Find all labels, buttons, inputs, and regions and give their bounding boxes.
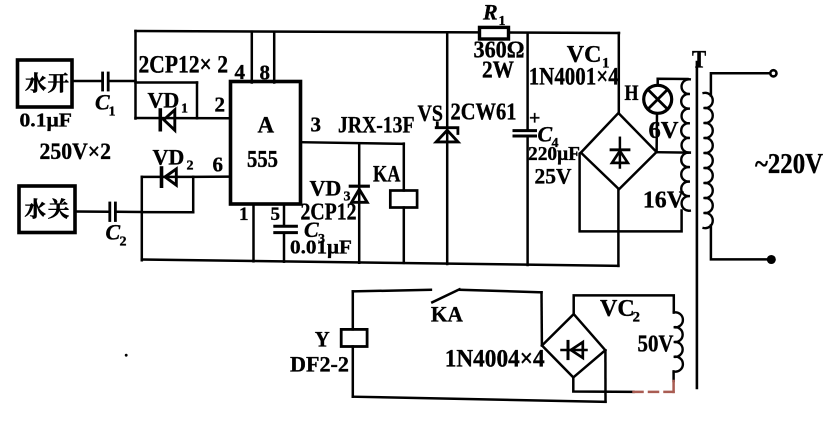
svg-text:VC: VC (600, 296, 635, 322)
svg-text:2: 2 (215, 93, 226, 117)
svg-text:H: H (625, 80, 639, 105)
svg-text:3: 3 (344, 190, 351, 205)
transformer secondary 6V winding (681, 79, 690, 152)
bridge VC2 inner diode (562, 341, 587, 358)
svg-text:T: T (692, 47, 706, 74)
svg-text:0.1μF: 0.1μF (20, 109, 73, 131)
wire from SW1 box to C1 (72, 80, 101, 83)
wire VD2 loop top (142, 176, 193, 179)
wire 555 pin8 to rail (273, 32, 276, 83)
svg-text:1: 1 (499, 14, 506, 29)
transformer secondary 16V winding (681, 153, 690, 211)
svg-text:C: C (106, 220, 121, 245)
wire VD1 bottom / pin2 line (136, 117, 231, 120)
diode VD1 (160, 110, 175, 130)
wire 555 pin4 to rail (251, 32, 254, 83)
svg-text:4: 4 (235, 60, 246, 84)
svg-text:3: 3 (311, 113, 322, 137)
wire lamp top to 6V winding top (658, 79, 688, 85)
wire lamp bottom to bridge right vertex (655, 113, 658, 152)
wire primary bottom lead (711, 226, 768, 260)
wire VC2 right vertex drop (604, 350, 607, 402)
label SW2 text (25, 198, 46, 218)
wire VD3 branch vertical (358, 143, 361, 262)
capacitor C4 (514, 131, 536, 136)
capacitor C1 (103, 73, 109, 90)
wire bridge VC1 bottom to rail (617, 189, 620, 266)
wire bottom loop bottom edge (353, 397, 606, 402)
wire 555 pin1 to bottom rail (252, 204, 255, 261)
wire C4 upper lead (526, 33, 529, 130)
bridge rectifier VC1 (581, 113, 657, 189)
capacitor C2 (110, 203, 116, 221)
svg-text:555: 555 (247, 147, 278, 173)
svg-text:~220V: ~220V (755, 149, 823, 180)
wire Y lower lead (352, 347, 355, 397)
zener diode VS (436, 123, 458, 142)
wire C4 lower lead (526, 138, 529, 265)
wire KA coil lower lead (403, 208, 406, 263)
svg-text:1: 1 (239, 204, 249, 225)
wire KA coil upper lead (403, 144, 406, 191)
switch KA contact blade (432, 289, 459, 302)
svg-text:JRX-13F: JRX-13F (338, 113, 415, 139)
wire VD2 loop left vertical down to bottom rail (141, 177, 144, 260)
svg-text:6: 6 (213, 153, 224, 177)
svg-text:VD: VD (148, 88, 180, 113)
IC A 555 timer (231, 82, 301, 205)
wire 555 pin5 upper (283, 204, 286, 226)
relay coil KA (390, 191, 417, 208)
wire primary top lead (711, 73, 770, 95)
wire Y upper lead (352, 291, 355, 329)
wire rail to bridge VC1 top (618, 33, 621, 114)
svg-text:VS: VS (418, 101, 444, 126)
svg-text:VD: VD (310, 176, 342, 201)
wire bottom loop top edge left (353, 290, 431, 292)
svg-text:VD: VD (153, 145, 185, 170)
wire 50V winding bottom lead black part (672, 372, 675, 382)
capacitor C3 (275, 226, 297, 232)
svg-text:8: 8 (260, 61, 271, 85)
wire VD1 loop top (136, 81, 198, 84)
wire VC2 bottom vertex drop (573, 377, 633, 392)
transformer primary 220V winding (704, 93, 713, 228)
svg-text:Y: Y (315, 327, 330, 352)
svg-text:1: 1 (109, 105, 116, 120)
svg-text:16V: 16V (643, 188, 685, 214)
wire 555 pin5 lower below C3 (283, 233, 286, 262)
box SW1 water-boil sensor (18, 60, 73, 107)
svg-text:KA: KA (431, 302, 463, 327)
svg-text:2CW61: 2CW61 (451, 100, 517, 126)
svg-text:2W: 2W (482, 58, 514, 84)
stray ink speck (125, 354, 128, 357)
svg-text:220μF: 220μF (528, 143, 580, 165)
bridge VC1 inner diode (611, 138, 629, 168)
resistor R1 (480, 27, 509, 39)
wire C1 to VD1 loop (110, 80, 136, 83)
svg-text:1N4001×4: 1N4001×4 (529, 64, 619, 91)
svg-text:1: 1 (181, 102, 188, 117)
svg-text:2: 2 (187, 159, 194, 174)
wire pin6 line (193, 175, 230, 178)
bridge rectifier VC2 (542, 314, 605, 377)
svg-text:50V: 50V (638, 332, 675, 358)
svg-text:A: A (258, 113, 275, 138)
wire bottom loop top edge right (460, 290, 542, 293)
svg-text:0.01μF: 0.01μF (290, 237, 352, 259)
wire VD1 loop right (196, 83, 199, 119)
svg-text:R: R (482, 0, 498, 25)
svg-text:2: 2 (120, 235, 127, 250)
lamp H (644, 85, 672, 113)
wire 6V/16V tap to bridge right vertex (657, 151, 688, 154)
svg-text:DF2-2: DF2-2 (290, 352, 349, 377)
svg-text:6V: 6V (649, 118, 680, 144)
wire top supply rail (136, 31, 620, 33)
transformer 50V winding (674, 312, 683, 371)
svg-text:1N4004×4: 1N4004×4 (445, 346, 545, 373)
svg-text:2: 2 (633, 310, 641, 326)
diode VD3 (350, 186, 368, 202)
wire loop right vertical to VC2 left vertex (540, 292, 543, 345)
wire bridge left vertex to 16V winding bottom (580, 153, 682, 232)
terminal ring top (770, 70, 776, 76)
wire bottom ground rail (142, 260, 619, 266)
wire VC2 top vertex riser (574, 295, 674, 314)
diode VD2 (162, 168, 177, 186)
svg-text:2CP12× 2: 2CP12× 2 (139, 51, 229, 78)
wire VD2 loop right (192, 177, 195, 212)
box SW2 water-off sensor (19, 186, 75, 233)
wire 555 pin3 output line (301, 142, 404, 144)
wire SW2 box to C2 (75, 210, 108, 213)
wire VD2 loop bottom (142, 211, 193, 214)
label SW1 text (25, 72, 46, 92)
wire red repaired segment (634, 381, 674, 392)
wire C2 to VD2 loop (117, 211, 142, 214)
wire VS branch vertical (446, 32, 449, 264)
svg-text:250V×2: 250V×2 (40, 139, 112, 165)
svg-text:25V: 25V (535, 163, 572, 188)
svg-text:KA: KA (373, 162, 401, 187)
terminal dot bottom (768, 256, 775, 263)
solenoid valve Y (341, 329, 367, 346)
transformer core (696, 62, 699, 388)
wire left vertical from rail to VD1 loop (134, 31, 137, 119)
svg-text:5: 5 (271, 204, 281, 225)
